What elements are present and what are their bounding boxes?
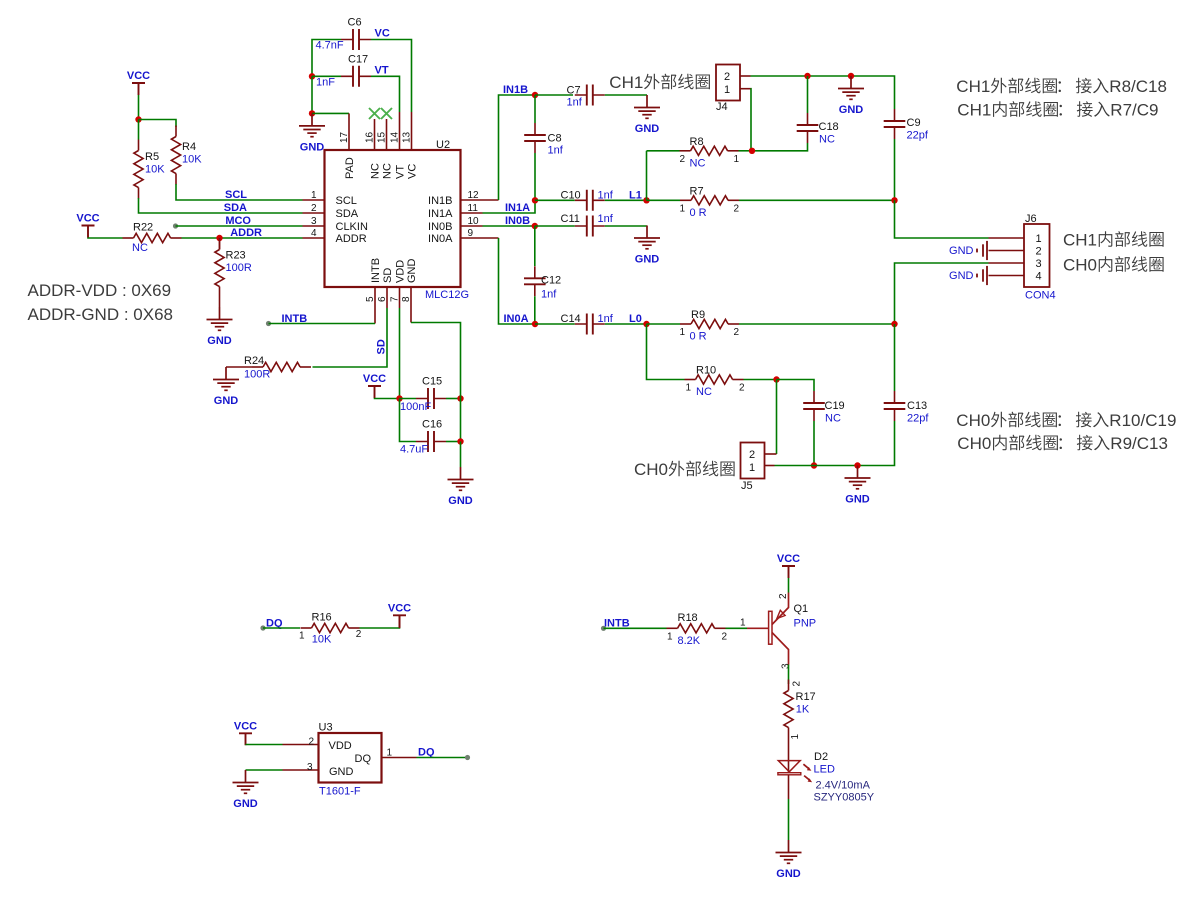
svg-text:R7/C9: R7/C9 [1110,101,1158,120]
svg-text:C12: C12 [541,274,561,286]
wire C19 down [813,421,815,466]
svg-text:4.7uF: 4.7uF [400,444,428,456]
svg-text:CON4: CON4 [1025,290,1056,302]
junction [749,148,755,154]
wire IN0B [483,225,535,227]
svg-text:T1601-F: T1601-F [319,786,361,798]
svg-text:1nf: 1nf [548,145,564,157]
pin 1 J4 [740,88,751,90]
svg-text:7: 7 [390,296,401,302]
wire J6 pin1 [895,200,989,238]
capacitor C6 [341,39,371,41]
svg-text:1: 1 [685,383,691,394]
wire IN0B down [534,226,536,266]
capacitor C13 [894,391,896,421]
junction [773,376,779,382]
wire to J5 pin2 [776,380,778,455]
svg-text:CLKIN: CLKIN [336,221,368,233]
pin 1 J5 [765,465,775,467]
pin 3 J6 [989,262,1025,264]
pin 2 VDD U3 [283,744,319,746]
ground C16 [448,467,474,490]
wire VC to pin13 [371,40,412,113]
junction [854,462,860,468]
svg-text:ADDR-GND : 0X68: ADDR-GND : 0X68 [28,305,173,324]
capacitor C7 [575,94,605,96]
svg-text:1: 1 [790,734,801,740]
ground D2 [776,840,802,863]
svg-text:ADDR: ADDR [336,233,367,245]
capacitor C8 [534,123,536,153]
pin 1 DQ U3 [382,757,417,759]
wire VCC to U3 [246,744,283,746]
svg-text:0 R: 0 R [690,207,707,219]
note CH1 external coil wiring [956,77,1167,96]
ground R23 [207,307,233,330]
svg-text:R4: R4 [182,141,196,153]
wire LED to ground [788,799,790,840]
wire to C18 [807,76,809,113]
wire L1 to R7 [647,199,681,201]
svg-text:1: 1 [734,154,740,165]
svg-text:CH0: CH0 [956,411,990,430]
svg-text:LED: LED [814,764,835,776]
svg-text:8: 8 [401,296,412,302]
junction [396,395,402,401]
resistor R7 [680,199,691,201]
resistor R9 [680,323,691,325]
svg-text:R8: R8 [690,136,704,148]
svg-text:U3: U3 [319,722,333,734]
svg-text:SDA: SDA [336,208,359,220]
pin 2 J5 [765,453,777,455]
junction [891,197,897,203]
svg-text:C17: C17 [348,54,368,66]
svg-text:VC: VC [407,164,419,179]
svg-text:C9: C9 [907,117,921,129]
svg-text:1nf: 1nf [541,289,557,301]
pin 10 IN0B [461,225,483,227]
net port dot [465,755,470,760]
pin 5 INTB [374,287,376,324]
svg-text:R9: R9 [691,309,705,321]
resistor R22 [123,237,134,239]
svg-text:16: 16 [365,131,376,143]
capacitor C19 [813,391,815,421]
svg-text:1: 1 [1035,233,1041,245]
capacitor C10 [575,199,605,201]
svg-text:1: 1 [724,84,730,96]
svg-text:SD: SD [376,339,388,354]
wire SD [313,308,388,367]
svg-text:11: 11 [468,203,479,214]
svg-text:NC: NC [132,242,148,254]
junction [804,73,810,79]
svg-text:1: 1 [311,190,317,201]
svg-text:GND: GND [776,868,801,880]
wire J4 pin1 down [750,89,753,151]
wire C12 down [534,296,536,324]
VCC stem [399,615,401,628]
pin 9 IN0A [461,237,499,239]
ground J6 pin4 [977,266,987,285]
svg-text:CH0: CH0 [1063,256,1097,275]
wire emitter to VCC [788,578,790,593]
svg-text:IN0B: IN0B [505,215,530,227]
pin 4 ADDR [303,237,325,239]
lead to ground [219,298,221,308]
svg-text:R10/C19: R10/C19 [1109,411,1176,430]
svg-text:C18: C18 [819,121,839,133]
resistor R10 [685,379,696,381]
wire to C13 [894,324,896,391]
wire IN1B [499,95,536,200]
ground C7 [634,95,660,118]
svg-text:10: 10 [468,216,480,227]
svg-text:NC: NC [696,386,712,398]
wire R18 to Q1 [726,627,748,629]
svg-text:GND: GND [406,259,418,284]
VCC power symbol [82,226,95,238]
wire pin7 VDD [399,308,401,399]
wire R10 right [744,379,777,381]
svg-text:100R: 100R [244,369,270,381]
svg-text:4: 4 [1035,271,1041,283]
pin 17 PAD [348,113,350,150]
svg-text:R9/C13: R9/C13 [1110,434,1168,453]
svg-text:3: 3 [307,762,313,773]
wire to C19 [777,380,815,392]
svg-text:3: 3 [780,663,791,669]
wire IN0A [499,238,536,324]
svg-text:INTB: INTB [370,258,382,283]
svg-text:J4: J4 [716,101,728,113]
VCC power symbol [393,615,406,627]
wire C6 left [312,40,341,77]
svg-text:1: 1 [387,748,393,759]
junction [643,321,649,327]
capacitor C14 [575,323,605,325]
wire to C15 [400,398,417,400]
svg-text:R7: R7 [690,185,704,197]
svg-text:2: 2 [734,327,740,338]
pin 6 SD [386,287,388,308]
svg-text:5: 5 [365,296,376,302]
svg-text:1: 1 [299,631,305,642]
wire R7 right [739,199,895,201]
svg-text:1: 1 [667,631,673,642]
svg-text:CH1: CH1 [957,101,991,120]
svg-text:NC: NC [370,163,382,179]
svg-text:1K: 1K [796,704,810,716]
resistor R8 [680,150,691,152]
wire VCC to C15 [375,397,400,400]
lead R23 [219,238,221,250]
wire C16 right [446,441,461,443]
note CH0 internal coil wiring [957,434,1168,453]
VCC power symbol [368,386,381,398]
resistor R5 [138,140,140,151]
pin 13 VC [411,112,413,150]
svg-text:DQ: DQ [355,753,372,765]
svg-text:100nF: 100nF [400,401,431,413]
svg-text:100R: 100R [226,262,252,274]
svg-text:C14: C14 [561,313,581,325]
svg-text:17: 17 [339,131,350,143]
svg-text:VC: VC [375,28,390,40]
svg-text:4.7nF: 4.7nF [316,40,344,52]
ground J4 [838,76,864,99]
wire to pin17 [312,112,349,114]
svg-text:2: 2 [734,203,740,214]
wire to R9 [647,323,681,325]
wire C11 to ground [605,225,647,227]
svg-text:SCL: SCL [336,195,357,207]
ground pin17 [299,113,325,136]
svg-text:C15: C15 [422,376,442,388]
svg-text:GND: GND [300,141,325,153]
svg-text:R17: R17 [796,691,816,703]
svg-text:VCC: VCC [388,602,411,614]
svg-text:VT: VT [375,65,389,77]
wire to C10 [535,199,575,201]
junction [848,73,854,79]
svg-text:VCC: VCC [777,553,800,565]
svg-text:IN1A: IN1A [428,208,453,220]
svg-text:R18: R18 [678,612,698,624]
svg-text:15: 15 [377,131,388,143]
wire C7 to ground [605,94,647,96]
junction [309,110,315,116]
pin 15 NC [386,119,388,150]
pin 1 SCL [303,199,325,201]
pin 7 VDD [399,287,401,308]
junction [532,321,538,327]
ground U3 [233,770,259,793]
svg-text:CH1: CH1 [1063,231,1097,250]
capacitor C16 [416,441,446,443]
wire INTB [269,323,376,325]
wire pin8 GND [411,323,461,442]
svg-text:R24: R24 [244,355,264,367]
connector J6 [1024,224,1050,287]
text CH1 internal coil [1063,231,1164,250]
wire R9 right [739,323,895,325]
wire C17 left [312,75,341,77]
svg-text:R8/C18: R8/C18 [1109,77,1167,96]
svg-text:GND: GND [329,766,354,778]
svg-text:1: 1 [740,617,746,628]
transistor Q1 PNP [747,593,789,665]
svg-text:R22: R22 [133,222,153,234]
svg-text:SZYY0805Y: SZYY0805Y [814,791,875,803]
svg-text:ADDR-VDD : 0X69: ADDR-VDD : 0X69 [28,281,172,300]
junction [457,395,463,401]
svg-text:SDA: SDA [224,202,247,214]
svg-text:GND: GND [207,335,232,347]
pin 12 IN1B [461,199,499,201]
wire R8 left down [646,151,648,201]
svg-text:IN1B: IN1B [428,195,452,207]
wire IN1B down [534,95,536,123]
svg-text:VCC: VCC [234,720,257,732]
pin 4 J6 [989,275,1025,277]
pin 1 J6 [989,237,1025,239]
svg-text:U2: U2 [436,139,450,151]
junction [216,235,222,241]
resistor R24 [252,366,263,368]
text CH0 external coil [634,460,735,479]
junction [532,197,538,203]
pin 14 VT [399,112,401,150]
svg-text:10K: 10K [182,154,202,166]
net port dot [266,321,271,326]
svg-text:2: 2 [739,383,745,394]
svg-text:D2: D2 [814,751,828,763]
svg-text:CH1: CH1 [956,77,990,96]
resistor R18 [667,627,678,629]
svg-text:NC: NC [819,134,835,146]
svg-text:J5: J5 [741,480,753,492]
capacitor C15 [416,398,446,400]
ground J5 [845,466,871,489]
wire [138,95,140,120]
capacitor C17 [341,75,371,77]
pin 8 GND [410,287,412,323]
note CH0 external coil wiring [956,411,1176,430]
svg-text:2: 2 [724,71,730,83]
VCC power symbol [132,83,145,95]
svg-text:22pf: 22pf [907,130,929,142]
wire to C11 [535,225,575,227]
svg-text:C8: C8 [548,133,562,145]
junction [309,73,315,79]
svg-text:VCC: VCC [363,373,386,385]
svg-text:GND: GND [635,123,660,135]
IC U3 body [319,733,382,783]
wire L0 [605,323,647,325]
wire INTB [604,627,667,629]
LED D2 [788,739,790,773]
wire R8 right [739,150,753,152]
svg-text:4: 4 [311,228,317,239]
wire to R5 [138,120,140,140]
no-connect X [381,108,392,119]
svg-text:1: 1 [749,462,755,474]
note CH1 internal coil wiring [957,101,1158,120]
svg-text:IN1A: IN1A [505,202,530,214]
svg-text:C19: C19 [825,400,845,412]
svg-text:IN0B: IN0B [428,221,452,233]
wire C9 down [894,139,896,200]
svg-text:GND: GND [214,395,239,407]
wire L1 [605,199,647,201]
svg-text:SD: SD [382,268,394,283]
svg-text:1: 1 [679,203,685,214]
pin 16 NC [374,119,376,150]
connector J5 [741,443,765,479]
VCC power symbol [782,566,795,578]
svg-text:NC: NC [382,163,394,179]
svg-text:GND: GND [448,495,473,507]
svg-text:IN0A: IN0A [504,313,529,325]
svg-text:10K: 10K [312,634,332,646]
text CH0 internal coil [1063,256,1164,275]
junction [532,92,538,98]
net port dot [173,223,178,228]
svg-text:3: 3 [311,216,317,227]
connector J4 [716,65,740,101]
net port dot [260,625,265,630]
wire DQ out [417,757,468,759]
svg-text:2: 2 [356,629,362,640]
pin 2 SDA [303,212,325,214]
wire collector to R17 [788,665,790,685]
capacitor C11 [575,225,605,227]
pin 2 J4 [740,75,751,77]
svg-text:PAD: PAD [344,157,356,179]
svg-text:C6: C6 [348,17,362,29]
svg-text:2: 2 [308,737,314,748]
LED lead [788,775,790,799]
wire SCL [176,184,303,200]
capacitor C18 [807,113,809,143]
svg-text:GND: GND [949,245,974,257]
svg-text:2.4V/10mA: 2.4V/10mA [816,779,871,791]
pin 11 IN1A [461,212,483,214]
junction [811,462,817,468]
wire U3 to ground [246,769,283,771]
svg-text:VCC: VCC [127,70,150,82]
svg-text:PNP: PNP [794,617,817,629]
wire MCO [176,225,303,227]
svg-text:C11: C11 [561,213,580,225]
svg-text:10K: 10K [145,164,165,176]
svg-text:VDD: VDD [395,260,407,283]
svg-text:0 R: 0 R [690,331,707,343]
wire J6 pin3 [895,263,989,324]
svg-text:C13: C13 [907,400,927,412]
svg-text:2: 2 [722,631,728,642]
svg-text:1nF: 1nF [316,77,335,89]
svg-text:1nf: 1nf [598,213,614,225]
svg-text:12: 12 [468,190,480,201]
svg-text:CH1: CH1 [609,73,643,92]
text CH1 external coil [609,73,710,92]
svg-text:NC: NC [825,413,841,425]
svg-text:R5: R5 [145,151,159,163]
wire to R8 [647,150,680,152]
svg-text:8.2K: 8.2K [678,635,701,647]
pin 2 J6 [989,250,1025,252]
svg-text:13: 13 [402,131,413,143]
svg-text:2: 2 [311,203,317,214]
wire R16 to VCC [360,626,400,629]
svg-text:CH0: CH0 [957,434,991,453]
junction [891,321,897,327]
svg-text:GND: GND [839,104,864,116]
pin 3 CLKIN [303,225,325,227]
svg-text:C7: C7 [567,85,581,97]
junction [532,223,538,229]
wire to C14 [535,323,575,325]
resistor R17 [788,680,790,691]
svg-text:VT: VT [395,165,407,179]
ground R24 [213,367,239,390]
wire SDA [139,198,303,213]
capacitor C9 [894,109,896,139]
VCC power symbol [239,733,252,745]
